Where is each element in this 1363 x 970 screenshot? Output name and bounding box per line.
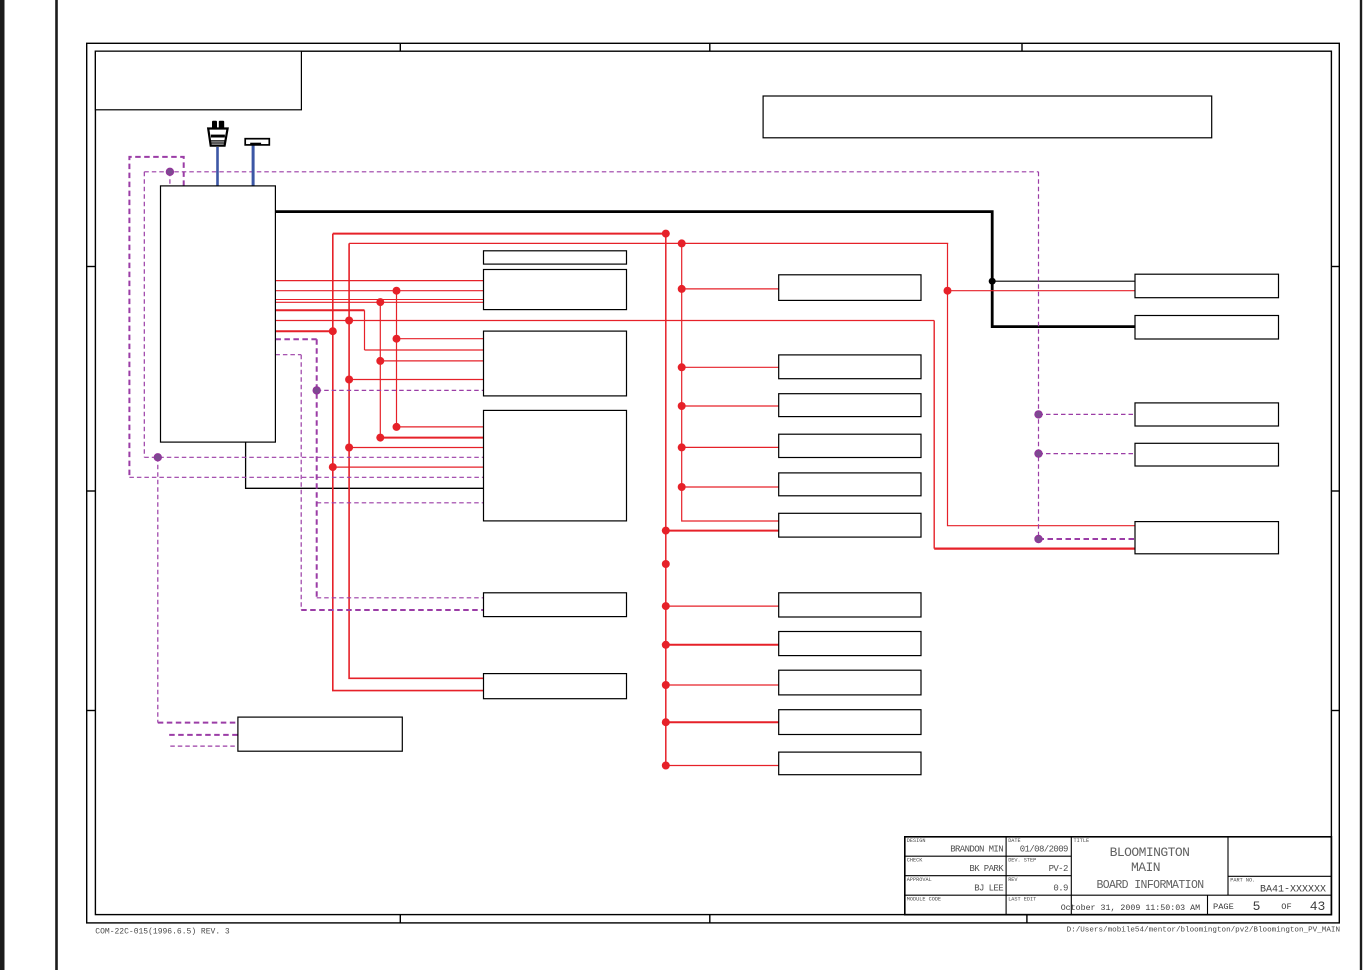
svg-text:October 31, 2009 11:50:03 AM: October 31, 2009 11:50:03 AM xyxy=(1061,903,1200,913)
svg-text:DESIGN: DESIGN xyxy=(907,838,926,844)
svg-text:REV: REV xyxy=(1008,877,1018,883)
svg-text:PV-2: PV-2 xyxy=(1049,864,1068,874)
svg-text:BK PARK: BK PARK xyxy=(969,864,1004,874)
svg-text:TITLE: TITLE xyxy=(1074,838,1090,844)
svg-text:D:/Users/mobile54/mentor/bloom: D:/Users/mobile54/mentor/bloomington/pv2… xyxy=(1067,927,1340,935)
svg-text:01/08/2009: 01/08/2009 xyxy=(1020,845,1068,855)
svg-text:MODULE CODE: MODULE CODE xyxy=(907,897,941,903)
svg-text:BRANDON MIN: BRANDON MIN xyxy=(950,845,1003,855)
svg-text:5: 5 xyxy=(1253,899,1261,914)
svg-text:APPROVAL: APPROVAL xyxy=(907,877,932,883)
svg-text:BA41-XXXXXX: BA41-XXXXXX xyxy=(1260,884,1326,895)
svg-text:COM-22C-015(1996.6.5) REV. 3: COM-22C-015(1996.6.5) REV. 3 xyxy=(95,928,230,937)
svg-text:MAIN: MAIN xyxy=(1131,860,1160,875)
svg-text:0.9: 0.9 xyxy=(1053,884,1068,894)
svg-text:PAGE: PAGE xyxy=(1213,902,1234,912)
svg-text:43: 43 xyxy=(1310,899,1326,914)
svg-text:BLOOMINGTON: BLOOMINGTON xyxy=(1110,845,1190,860)
svg-text:PART NO.: PART NO. xyxy=(1230,878,1255,884)
svg-text:LAST EDIT: LAST EDIT xyxy=(1008,897,1036,903)
svg-text:OF: OF xyxy=(1281,902,1291,912)
svg-text:DATE: DATE xyxy=(1008,838,1020,844)
svg-text:BJ LEE: BJ LEE xyxy=(974,884,1003,894)
svg-text:BOARD INFORMATION: BOARD INFORMATION xyxy=(1096,879,1203,892)
svg-text:CHECK: CHECK xyxy=(907,858,923,864)
svg-text:DEV. STEP: DEV. STEP xyxy=(1008,858,1036,864)
